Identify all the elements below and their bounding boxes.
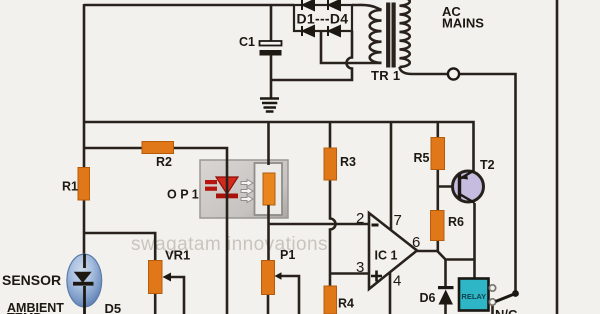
ground symbol: [260, 99, 279, 112]
T2 emitter lead: [460, 171, 475, 180]
OP1 LDR orange element: [263, 173, 275, 205]
wire T2 base: [438, 185, 458, 188]
relay switch lever: [496, 294, 516, 302]
wire P1 wiper: [279, 276, 299, 314]
OP1 LED dash 1: [205, 180, 217, 184]
wire ground bus to bridge right edge: [271, 31, 352, 80]
wire mains line right: [556, 0, 559, 314]
transistor T2 body: [453, 171, 484, 202]
D5 cathode bar: [73, 282, 94, 286]
capacitor C1 bottom plate: [260, 50, 282, 56]
wire relay NC contact down: [491, 305, 494, 314]
bridge rectifier D1-D4 box: [294, 5, 352, 31]
OP1 LED dash 2: [205, 187, 217, 191]
preset VR1 body: [149, 261, 163, 294]
relay coil box: [459, 279, 489, 311]
resistor R2: [142, 142, 174, 154]
svg-text:7: 7: [394, 212, 402, 229]
wire R6 bottom jog: [438, 241, 446, 260]
svg-text:swagatam innovations: swagatam innovations: [131, 234, 328, 255]
wire trunk to VR1: [84, 233, 155, 261]
svg-text:IC 1: IC 1: [375, 249, 398, 263]
resistor R5: [431, 138, 445, 170]
OP1 inner LDR window: [255, 163, 283, 215]
diode D3: [302, 26, 314, 36]
wire IC1 pin4 down: [389, 272, 392, 314]
diode D2: [328, 0, 340, 10]
wire C1 bottom lead to ground: [270, 55, 273, 98]
OP1 LED cathode bar: [216, 194, 238, 199]
wire OP1 LDR lower lead: [267, 205, 270, 224]
svg-text:D6: D6: [420, 291, 436, 305]
op-amp IC1 triangle: [369, 213, 417, 289]
OP1 light arrow 2: [241, 188, 253, 195]
wire D6 node to T2 emitter line: [446, 258, 475, 261]
svg-text:R1: R1: [62, 180, 78, 194]
wire transformer secondary top hook: [352, 5, 382, 10]
resistor R3: [324, 148, 337, 180]
wire R5 to R6: [436, 169, 439, 211]
svg-text:R5: R5: [414, 151, 430, 165]
wire R2 branch to OP1 LED: [84, 148, 227, 314]
relay NO contact: [489, 285, 495, 291]
wire pin3 line to IC1: [330, 272, 369, 275]
relay NC contact: [489, 299, 495, 305]
svg-text:RELAY: RELAY: [461, 292, 486, 301]
wire R3 R4 chain with hop over pin2 line: [330, 122, 336, 314]
diode D6 triangle: [439, 290, 454, 305]
svg-text:N/C: N/C: [495, 307, 518, 314]
diode D6 cathode bar: [438, 286, 454, 289]
svg-text:VR1: VR1: [165, 248, 190, 263]
svg-text:D5: D5: [105, 301, 122, 314]
wire pin2 line to IC1: [269, 223, 370, 226]
wire VR1 wiper: [168, 277, 184, 314]
wire left trunk: [83, 4, 86, 254]
sensor diode D5 body: [67, 254, 102, 307]
svg-text:3: 3: [356, 259, 364, 276]
T2 collector lead: [460, 194, 475, 203]
svg-text:6: 6: [412, 234, 420, 251]
wire T2 emitter to relay: [473, 203, 476, 279]
relay pole junction dot: [512, 290, 519, 297]
resistor R4: [324, 286, 337, 314]
svg-text:R2: R2: [156, 155, 172, 169]
svg-text:C1: C1: [239, 35, 255, 49]
wire transformer primary bottom lead: [400, 67, 448, 74]
wire bus to OP1 LDR: [267, 122, 270, 165]
wire AC terminal to switch pole: [459, 74, 515, 294]
svg-text:TR 1: TR 1: [371, 68, 400, 83]
D5 triangle: [74, 272, 92, 283]
svg-text:2: 2: [356, 210, 364, 227]
wire VR1 bottom lead: [154, 294, 157, 314]
wire bridge AC output riser: [321, 31, 382, 63]
capacitor C1 top plate: [260, 41, 282, 46]
IC1 plus sign: [371, 271, 382, 282]
resistor R1: [78, 168, 90, 201]
IC1 minus sign: [372, 224, 379, 227]
wire P1 bottom lead: [267, 295, 270, 314]
diode D4: [328, 26, 340, 36]
diode D1: [302, 0, 314, 10]
svg-text:R3: R3: [340, 155, 356, 169]
svg-text:R4: R4: [338, 297, 354, 311]
wire IC1 pin7 to bus: [390, 122, 393, 232]
wire positive bus: [84, 122, 474, 171]
wire P1 top lead: [267, 224, 270, 261]
transformer TR1 core: [388, 3, 393, 68]
OP1 light arrow 3: [241, 196, 253, 203]
svg-text:SENSOR: SENSOR: [2, 272, 61, 288]
wire D6 top lead: [444, 260, 447, 288]
coil TR1 primary winding: [400, 0, 410, 67]
resistor R6: [431, 211, 445, 241]
svg-text:O P 1: O P 1: [167, 188, 199, 202]
svg-text:P1: P1: [280, 248, 295, 262]
svg-text:MAINS: MAINS: [442, 16, 484, 31]
T2 emitter arrow: [461, 173, 469, 179]
OP1 light arrow 1: [241, 180, 253, 187]
coil TR1 secondary winding: [370, 10, 382, 63]
T2 base bar: [458, 175, 461, 199]
svg-text:4: 4: [393, 273, 401, 290]
preset VR1 wiper arrow: [163, 273, 172, 282]
svg-text:R6: R6: [448, 215, 464, 229]
wire R5 top lead: [436, 122, 439, 138]
D5 bottom lead: [83, 286, 86, 314]
preset P1 wiper arrow: [275, 272, 282, 280]
D5 top lead: [83, 254, 86, 268]
AC terminal: [448, 68, 459, 79]
preset P1 body: [262, 261, 275, 295]
svg-text:D1---D4: D1---D4: [297, 11, 349, 27]
wire C1 top lead: [270, 5, 273, 41]
wire IC1 pin6 output: [417, 250, 438, 253]
OP1 LED triangle: [216, 177, 238, 194]
opto-coupler OP1 body: [200, 160, 288, 218]
svg-text:T2: T2: [480, 158, 495, 172]
wire top rail: [84, 4, 294, 7]
wire D6 bottom lead: [444, 304, 447, 314]
